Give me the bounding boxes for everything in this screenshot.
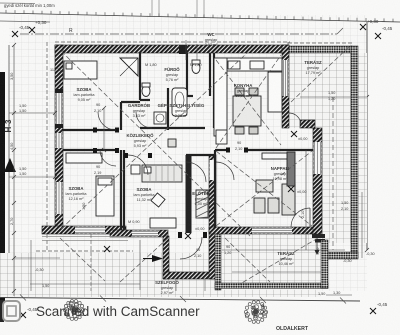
kitchen counters [214, 58, 282, 71]
desk mid room [150, 218, 176, 228]
top wall [55, 45, 289, 53]
steps at terrace door [312, 234, 325, 238]
szelfogo bottom wall [163, 272, 216, 279]
right site boundary [366, 22, 368, 250]
lower terrace grid [221, 234, 321, 284]
terrace enclosure walls (dotted) [289, 46, 352, 53]
bottom dims [14, 257, 60, 259]
left page edge black bar [0, 72, 5, 302]
szoba-mid bottom window [132, 231, 158, 237]
bathroom faint tiles [140, 58, 210, 128]
left wall [55, 45, 63, 233]
bottom wall left room [42, 226, 126, 234]
rotated left margin labels [10, 73, 14, 225]
toilet wc room [192, 63, 200, 74]
bottom site boundary with ticks [0, 298, 360, 302]
nappali left [214, 150, 216, 227]
corner shower furdo [120, 58, 138, 76]
nappali right wall window [314, 142, 322, 174]
wc leader [196, 44, 198, 60]
fence ticks [6, 10, 393, 22]
bottom-left wall window [75, 227, 105, 234]
szoba-mid left wall [123, 150, 125, 230]
nappali sliding door [252, 228, 292, 234]
bed room mid (horizontal) [142, 165, 182, 182]
corridor west window [56, 133, 63, 148]
watermark [0, 300, 4, 322]
bottom walkway strip [0, 253, 221, 297]
right margin dim line [361, 192, 363, 258]
chimney block [179, 45, 187, 54]
konyha right / terrace left wall [282, 45, 289, 128]
left wall window room bottom-left [56, 182, 63, 214]
washer [154, 112, 166, 124]
entrance arrow [152, 255, 163, 262]
right dims [300, 96, 367, 98]
star markers [104, 131, 297, 252]
stub wall konyha-nappali [300, 120, 315, 128]
windows: light gaps in walls [55, 45, 325, 243]
bed room1 [64, 61, 97, 79]
top fence line [0, 13, 400, 22]
wc walls [186, 53, 188, 96]
szoba-mid right wall (thick dark) [186, 155, 192, 233]
ridge dash-dot line [20, 33, 337, 35]
tv [262, 153, 288, 159]
szelfogo left wall [163, 236, 169, 279]
kitchen faint tiles [212, 58, 282, 148]
szelfogo right / eloter wall [209, 233, 216, 279]
lower terrace edging [215, 234, 221, 290]
toilet furdo [142, 86, 150, 97]
left vertical dims [13, 45, 15, 296]
dim ticks [12, 43, 106, 293]
gepeszeti bottom [140, 127, 205, 129]
szoba1 bottom / kozlekedo [63, 129, 115, 131]
mid vertical wall [120, 150, 122, 230]
top-right terrace grid [289, 53, 352, 128]
door posts [93, 128, 248, 239]
wardrobe room bottom-left [66, 153, 102, 163]
ledge lines below bottom wall [42, 237, 128, 241]
faint graph grid over whole drawing area [9, 15, 367, 291]
roof overhang dashed rectangle [36, 42, 352, 251]
bed room bottom-left (vertical) [96, 176, 114, 216]
furdo/gepeszeti wall [167, 88, 169, 130]
szoba1 / furdo wall [139, 53, 141, 100]
chair diag [151, 193, 165, 207]
gardrob left/top walls [120, 102, 122, 130]
door gap eloter->nappali [210, 160, 216, 180]
konyha left wall [213, 53, 215, 128]
furdo bottom [140, 99, 150, 101]
1,30 dim bottom right [326, 294, 352, 296]
konyha right wall window [283, 60, 289, 96]
nappali bottom wall [209, 227, 314, 234]
bathtub [172, 88, 187, 116]
coffee table [256, 180, 273, 192]
top-left extra lines [0, 2, 35, 5]
eloter/kozlekedo [186, 154, 215, 156]
nappali right wall [313, 128, 322, 234]
eloter cabinet [196, 190, 208, 218]
interior verticals [103, 108, 105, 150]
extra vertical dim lines bottom [91, 234, 205, 291]
kozlekedo bottom / szoba-left [63, 149, 118, 151]
dining table [233, 96, 261, 126]
step arrow [316, 240, 318, 252]
bottom wall mid room [110, 230, 168, 237]
trees [63, 300, 267, 324]
left wall window room1 [56, 93, 63, 124]
konyha bottom / nappali top [215, 149, 228, 151]
dimension texts [19, 63, 375, 288]
nappali sofa group [254, 198, 265, 213]
